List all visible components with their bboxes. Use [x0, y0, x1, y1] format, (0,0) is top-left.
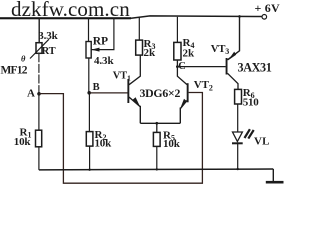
wire VT3 base from node C	[177, 66, 225, 68]
wire node A to R1	[38, 94, 40, 130]
transistor VT1	[127, 55, 140, 123]
wire RT to node A	[38, 53, 40, 94]
junction dot R5 ground	[156, 168, 158, 170]
ground	[266, 169, 284, 184]
node A	[27, 87, 41, 99]
wire +6V power rail	[131, 16, 262, 18]
wire VT1 base from node B	[90, 92, 128, 94]
resistor R4	[174, 17, 181, 60]
resistor R1	[36, 130, 42, 147]
svg-text:VT1: VT1	[113, 71, 131, 83]
svg-text:3AX31: 3AX31	[238, 60, 272, 74]
svg-text:3DG6×2: 3DG6×2	[140, 86, 181, 100]
resistor R6	[235, 89, 242, 104]
wire LED to ground rail	[237, 143, 239, 169]
wire rail to RT top	[38, 18, 40, 42]
wire R6 to LED	[237, 104, 239, 132]
wire node A to VT2 base loop	[39, 93, 202, 184]
svg-text:4.3k: 4.3k	[94, 55, 114, 67]
svg-text:RT: RT	[42, 46, 56, 57]
terminal +6V	[255, 1, 280, 19]
resistor R5	[153, 132, 160, 146]
svg-text:VT2: VT2	[194, 79, 213, 93]
svg-text:2k: 2k	[144, 47, 157, 59]
transistor VT3	[226, 15, 241, 89]
svg-text:510: 510	[243, 97, 260, 109]
thermistor RT	[21, 39, 49, 63]
svg-text:B: B	[93, 82, 100, 93]
wire RP to node B	[88, 58, 90, 93]
wire ground rail	[39, 168, 273, 171]
svg-text:10k: 10k	[95, 137, 113, 149]
wire R4 to node C and VT2 collector	[177, 60, 187, 85]
svg-text:RP: RP	[93, 36, 108, 48]
junction dot LED ground	[237, 168, 239, 170]
svg-text:MF12: MF12	[1, 64, 28, 76]
svg-text:2k: 2k	[183, 47, 196, 59]
svg-text:A: A	[27, 87, 35, 99]
wire R2 to ground rail	[89, 146, 91, 170]
transistor VT2	[180, 83, 189, 123]
node C	[176, 61, 186, 72]
wire common emitter rail	[140, 122, 180, 124]
svg-text:3.3k: 3.3k	[38, 30, 58, 42]
resistor R2	[86, 132, 93, 147]
svg-text:10k: 10k	[163, 138, 181, 150]
wire rail to RP	[88, 18, 90, 42]
LED VL	[232, 129, 254, 143]
wire emitter rail to R5	[155, 122, 158, 132]
svg-text:VL: VL	[254, 135, 270, 147]
watermark dzkfw.com.cn	[0, 0, 131, 21]
potentiometer RP	[86, 18, 114, 59]
wire R1 to ground rail	[38, 147, 40, 170]
svg-text:θ: θ	[21, 54, 26, 64]
svg-text:VT3: VT3	[211, 43, 229, 56]
svg-text:10k: 10k	[14, 136, 32, 148]
svg-text:+ 6V: + 6V	[255, 1, 280, 15]
resistor R3	[136, 17, 143, 55]
wire R5 to ground rail	[156, 146, 158, 169]
wire node B to R2	[88, 93, 90, 132]
junction dot R2 ground	[88, 169, 90, 171]
node B	[87, 82, 99, 95]
